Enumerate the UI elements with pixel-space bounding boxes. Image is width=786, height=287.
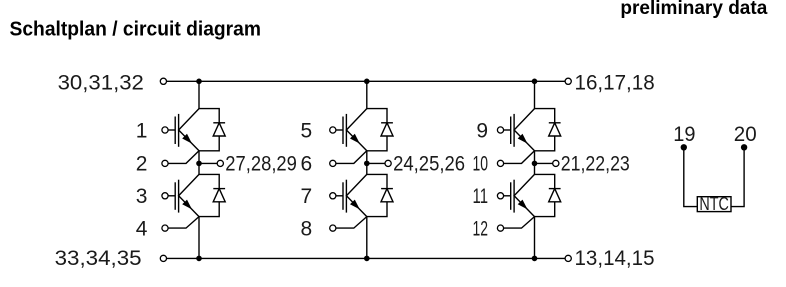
terminal 12 (aux emitter Q6) [497,225,503,231]
wire: phase output stub leg 2 [367,162,385,164]
diode D3 (freewheeling, antiparallel to Q3) [367,109,393,151]
svg-text:Schaltplan / circuit diagram: Schaltplan / circuit diagram [10,18,262,41]
svg-text:3: 3 [136,185,148,208]
thermistor NTC (temperature sensor) [697,197,731,212]
wire: phase output stub leg 3 [535,162,553,164]
terminal 10 (aux emitter Q5) [497,160,503,166]
svg-text:21,22,23: 21,22,23 [561,153,630,176]
terminal 1 (gate Q1) [162,127,168,133]
wire: emitter Q2 to DC- rail [198,217,200,259]
svg-text:2: 2 [136,153,148,176]
svg-text:5: 5 [301,119,313,142]
svg-text:preliminary data: preliminary data [620,0,767,19]
svg-text:19: 19 [673,123,695,146]
terminal 30,31,32 (DC+ left) [160,78,166,84]
svg-text:11: 11 [473,185,489,208]
wire: phase node leg 3 (emitter Q5 to collector Q6) [534,151,536,175]
svg-text:NTC: NTC [699,194,729,214]
svg-text:1: 1 [136,119,148,142]
wire: emitter Q4 to DC- rail [366,217,368,259]
svg-text:27,28,29: 27,28,29 [225,153,297,176]
node: DC- junction leg 1 [196,256,202,262]
node: phase junction leg 1 [196,161,202,167]
svg-text:24,25,26: 24,25,26 [393,153,465,176]
wire: phase node leg 1 (emitter Q1 to collector Q2) [198,151,200,175]
terminal 16,17,18 (DC+ right) [565,78,571,84]
terminal 4 (aux emitter Q2) [162,225,168,231]
svg-text:13,14,15: 13,14,15 [575,247,655,270]
svg-text:16,17,18: 16,17,18 [575,71,655,94]
diode D2 (freewheeling, antiparallel to Q2) [199,174,225,216]
wire: auxiliary emitter terminal 10 [504,151,535,164]
svg-text:12: 12 [473,217,489,240]
svg-text:10: 10 [473,153,489,176]
terminal 3 (gate Q2) [162,193,168,199]
transistor Q3 (IGBT, top of leg 2) [336,109,367,151]
terminal 11 (gate Q6) [497,193,503,199]
node: DC+ junction leg 2 [364,79,370,85]
transistor Q5 (IGBT, top of leg 3) [504,109,535,151]
transistor Q2 (IGBT, bottom of leg 1) [168,174,199,216]
wire: emitter Q6 to DC- rail [534,217,536,259]
wire: auxiliary emitter terminal 2 [168,151,199,164]
terminal 9 (gate Q5) [497,127,503,133]
wire: DC- bus (bottom rail) [167,257,566,259]
svg-text:6: 6 [301,153,313,176]
wire: phase node leg 2 (emitter Q3 to collector Q4) [366,151,368,175]
terminal 24,25,26 (phase output leg 2) [385,160,391,166]
diode D6 (freewheeling, antiparallel to Q6) [535,174,561,216]
node: DC- junction leg 3 [532,256,538,262]
terminal 13,14,15 (DC- right) [565,255,571,261]
terminal 27,28,29 (phase output leg 1) [217,160,223,166]
node: DC- junction leg 2 [364,256,370,262]
wire: pin 19 to NTC [684,147,698,206]
terminal 2 (aux emitter Q1) [162,160,168,166]
wire: auxiliary emitter terminal 4 [168,217,199,229]
wire: pin 20 to NTC [731,147,744,206]
wire: phase output stub leg 1 [199,162,217,164]
transistor Q6 (IGBT, bottom of leg 3) [504,174,535,216]
diode D5 (freewheeling, antiparallel to Q5) [535,109,561,151]
wire: DC+ bus (top rail) [167,80,566,82]
terminal 21,22,23 (phase output leg 3) [553,160,559,166]
svg-text:33,34,35: 33,34,35 [55,247,142,270]
node: terminal 20 (NTC) [741,144,747,150]
terminal 8 (aux emitter Q4) [330,225,336,231]
node: DC+ junction leg 3 [532,79,538,85]
terminal 33,34,35 (DC- left) [160,255,166,261]
terminal 6 (aux emitter Q3) [330,160,336,166]
wire: auxiliary emitter terminal 12 [504,217,535,229]
svg-text:7: 7 [301,185,313,208]
wire: auxiliary emitter terminal 6 [336,151,367,164]
svg-text:4: 4 [136,217,148,240]
transistor Q4 (IGBT, bottom of leg 2) [336,174,367,216]
wire: auxiliary emitter terminal 8 [336,217,367,229]
diode D1 (freewheeling, antiparallel to Q1) [199,109,225,151]
node: phase junction leg 2 [364,161,370,167]
wire: DC+ rail to collector Q5 [534,81,536,108]
diode D4 (freewheeling, antiparallel to Q4) [367,174,393,216]
wire: DC+ rail to collector Q1 [198,81,200,108]
svg-text:30,31,32: 30,31,32 [58,71,144,94]
svg-text:8: 8 [301,217,313,240]
terminal 5 (gate Q3) [330,127,336,133]
terminal 7 (gate Q4) [330,193,336,199]
svg-text:20: 20 [734,123,757,146]
wire: DC+ rail to collector Q3 [366,81,368,108]
node: terminal 19 (NTC) [681,144,687,150]
node: DC+ junction leg 1 [196,79,202,85]
node: phase junction leg 3 [532,161,538,167]
svg-text:9: 9 [476,119,488,142]
transistor Q1 (IGBT, top of leg 1) [168,109,199,151]
